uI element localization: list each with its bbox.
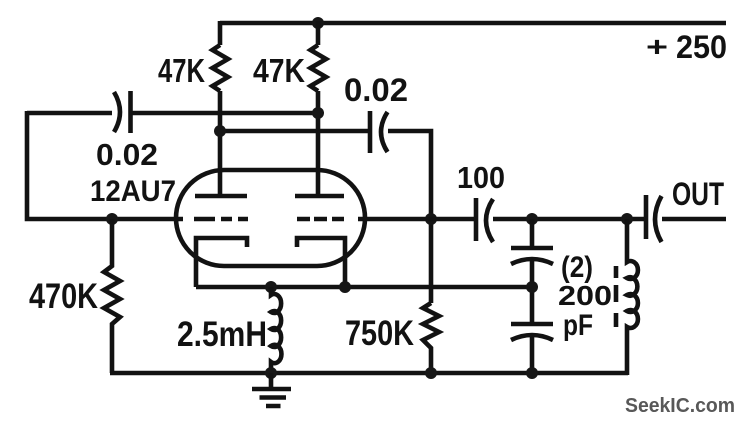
node: junction of R2 on supply rail — [312, 17, 324, 29]
vacuum tube U1 12AU7 envelope — [176, 170, 365, 266]
wire: branch down to C4 — [530, 219, 535, 247]
svg-text:+: + — [646, 31, 668, 62]
node: cathode bus taps C4/C5 midpoint — [526, 281, 538, 293]
wire: R2 top lead from rail — [316, 21, 321, 45]
resistor R3 470K — [104, 219, 120, 373]
wire: OUT terminal wire — [662, 217, 726, 222]
wire: C5 bottom to ground bus — [530, 337, 535, 373]
resistor R4 750K — [423, 303, 439, 373]
cathode 2 of U1 — [297, 238, 345, 287]
svg-text:0.02: 0.02 — [96, 137, 158, 172]
resistor R1 47K — [213, 45, 229, 91]
svg-text:2.5mH: 2.5mH — [177, 315, 267, 354]
wire: left drop from wire A to grid 1 line — [27, 111, 183, 219]
plate 1 bar of U1 — [195, 194, 247, 199]
wire: wire B continues then drops to grid 2 line — [388, 131, 431, 303]
grid 2 dashed line — [297, 217, 344, 222]
svg-text:pF: pF — [563, 309, 593, 342]
capacitor C5 200pF (straight plate) — [511, 322, 553, 327]
svg-text:200: 200 — [558, 280, 612, 311]
resistor R2 47K — [311, 45, 327, 91]
wire: ground bus (bottom rail) — [110, 371, 628, 376]
capacitor C5 200pF (curved plate) — [511, 335, 553, 340]
wire: R1 top lead from rail — [218, 21, 223, 45]
grid 1 dashed line — [194, 217, 248, 222]
wire: R1 bottom lead down to plate 1 of tube — [218, 91, 223, 196]
node: L1 bottom on ground bus — [265, 367, 277, 379]
capacitor C1 0.02 (curved plate) — [114, 92, 120, 132]
svg-text:47K: 47K — [253, 52, 305, 89]
wire: wire A continues to R2/plate2 junction — [131, 111, 318, 116]
capacitor C4 200pF (curved plate) — [511, 259, 553, 264]
node: wire B taps plate 1 lead — [214, 125, 226, 137]
node: grid 2 wire joins drop — [425, 213, 437, 225]
capacitor C2 0.02 (straight plate) — [368, 111, 373, 153]
node: inductor tap on cathode bus — [265, 281, 277, 293]
wire: C4 to C5 link — [530, 261, 535, 324]
wire: +250 supply rail — [220, 21, 726, 26]
capacitor C3 100 (straight plate) — [474, 198, 479, 241]
node: C5 bottom on ground bus — [526, 367, 538, 379]
capacitor C1 0.02 (straight plate) — [128, 91, 133, 133]
node: 750K bottom on ground bus — [425, 367, 437, 379]
inductor L2 tank coil — [627, 219, 638, 375]
capacitor C6 OUT (curved plate) — [655, 196, 662, 242]
capacitor C4 200pF (straight plate) — [511, 246, 553, 251]
cathode 1 of U1 — [196, 238, 247, 287]
svg-text:750K: 750K — [345, 314, 414, 353]
svg-text:250: 250 — [676, 29, 727, 65]
node: tank coil branch on output line — [621, 213, 633, 225]
svg-text:47K: 47K — [158, 52, 205, 89]
wire: R2 bottom lead down to plate 2 of tube — [316, 91, 321, 196]
capacitor C3 100 (curved plate) — [486, 199, 493, 242]
node: cathode 2 lead on cathode bus — [339, 281, 351, 293]
svg-text:SeekIC.com: SeekIC.com — [625, 395, 735, 417]
svg-text:12AU7: 12AU7 — [90, 175, 176, 208]
wire: output line from C3 to C6 — [493, 217, 645, 222]
svg-text:100: 100 — [457, 160, 505, 195]
capacitor C2 0.02 (curved plate) — [381, 112, 388, 152]
ground symbol — [252, 373, 291, 406]
wire: feedback wire A from left cap C1 to plate 2 node — [27, 111, 112, 116]
svg-text:0.02: 0.02 — [344, 72, 408, 108]
wire: cathode bus — [196, 285, 532, 290]
svg-text:OUT: OUT — [672, 176, 724, 212]
wire: feedback wire B from plate 1 node to C2 — [220, 129, 369, 134]
plate 2 bar of U1 — [295, 194, 344, 199]
core: dashed core line of L2 — [614, 266, 619, 327]
node: C4/C5 branch on output line — [526, 213, 538, 225]
svg-text:470K: 470K — [29, 277, 98, 316]
node: 470K joins grid 1 wire — [106, 213, 118, 225]
capacitor C6 OUT (straight plate) — [644, 195, 649, 239]
node: wire A joins plate 2 lead — [312, 107, 324, 119]
wire: grid 2 exits tube to the right — [358, 217, 475, 222]
inductor L1 2.5mH — [271, 287, 281, 373]
